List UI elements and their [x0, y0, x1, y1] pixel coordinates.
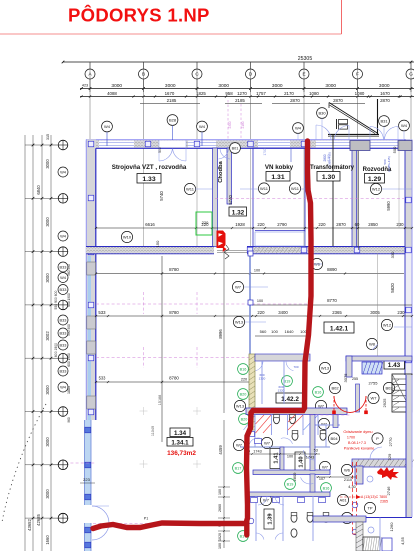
svg-text:2660: 2660 [218, 504, 222, 512]
window axis lines [106, 131, 108, 146]
thin dim line x377 [377, 253, 379, 356]
svg-text:600 1900: 600 1900 [67, 293, 71, 307]
svg-text:4,30: 4,30 [348, 485, 355, 489]
dotted boundary line bottom left [2, 404, 46, 522]
svg-text:1640: 1640 [285, 329, 295, 334]
svg-text:2746: 2746 [386, 486, 391, 496]
red section marker [217, 231, 226, 249]
svg-text:W4: W4 [60, 169, 67, 174]
magenta cross ticks at axis intersections [143, 292, 145, 314]
entrance ramp top right [329, 103, 378, 134]
left lower light-blue wall [85, 420, 92, 551]
svg-text:3000: 3000 [218, 83, 229, 89]
left bottom axis bubbles [58, 460, 68, 470]
svg-text:2180: 2180 [241, 121, 245, 128]
svg-text:W11: W11 [186, 186, 195, 191]
svg-text:600 1900: 600 1900 [67, 353, 71, 367]
svg-text:1.40: 1.40 [299, 456, 305, 467]
svg-text:2185: 2185 [167, 98, 177, 103]
svg-text:150: 150 [155, 240, 160, 247]
svg-text:220: 220 [202, 220, 209, 225]
svg-text:220: 220 [318, 222, 326, 227]
svg-text:1.31: 1.31 [271, 174, 284, 181]
svg-text:Chodba: Chodba [218, 160, 224, 182]
svg-text:B16: B16 [315, 390, 322, 394]
svg-text:136,73m2: 136,73m2 [167, 450, 196, 457]
svg-text:2365: 2365 [380, 500, 388, 504]
bottom right door arcs [370, 447, 382, 459]
svg-text:4459: 4459 [218, 445, 223, 455]
wall y494 [246, 492, 330, 497]
svg-text:4,55: 4,55 [400, 536, 405, 545]
svg-text:Odsávanie dymu: Odsávanie dymu [343, 429, 372, 434]
svg-text:B01: B01 [232, 146, 239, 150]
wall between 1.41 and 1.40 [280, 447, 284, 474]
svg-text:2110: 2110 [344, 478, 352, 482]
1.43 niche hatched [362, 362, 382, 374]
red removal cross cell 1 [256, 415, 272, 433]
svg-text:B31: B31 [380, 118, 388, 123]
green marked rectangle [196, 212, 212, 235]
svg-text:100: 100 [271, 329, 278, 334]
overall dimension 25305 [63, 61, 414, 63]
grid bubbles A-G [85, 69, 95, 79]
W12 upper bubble [370, 183, 381, 194]
svg-text:2870: 2870 [290, 98, 300, 103]
interior horizontal wall y250 right part [247, 247, 412, 254]
svg-text:Panikové kovanie: Panikové kovanie [344, 446, 375, 451]
svg-text:1.34.1: 1.34.1 [171, 440, 189, 447]
svg-text:533: 533 [99, 376, 107, 381]
green equipment bubbles [238, 364, 249, 375]
svg-text:3000: 3000 [45, 273, 50, 283]
svg-text:2870: 2870 [333, 98, 343, 103]
svg-text:W6: W6 [344, 467, 351, 472]
upper cells partitions 1.41 1.40 block [254, 415, 256, 447]
svg-text:B30: B30 [318, 110, 326, 115]
double door B31 arcs above wall [370, 127, 384, 141]
svg-text:3000: 3000 [45, 385, 50, 395]
svg-text:600 1900: 600 1900 [54, 343, 58, 357]
left wall piers [87, 262, 96, 275]
left wall glazing stripe [88, 256, 91, 420]
svg-text:330: 330 [390, 251, 395, 258]
svg-text:1.39: 1.39 [268, 513, 274, 525]
svg-text:B33: B33 [60, 368, 67, 373]
1.42.1 south wall [346, 356, 412, 361]
interior wall corridor opening [217, 250, 247, 252]
red cable route main [93, 141, 311, 529]
svg-text:2925: 2925 [382, 398, 387, 408]
svg-text:1270: 1270 [237, 91, 247, 96]
top wall door opening B28 [159, 141, 186, 148]
svg-text:8780: 8780 [169, 310, 179, 315]
svg-text:B33: B33 [60, 342, 67, 347]
svg-text:2870: 2870 [336, 222, 346, 227]
svg-text:PÔDORYS 1.NP: PÔDORYS 1.NP [68, 5, 210, 26]
interior wall nodes [247, 247, 253, 253]
svg-text:230: 230 [397, 310, 405, 315]
svg-text:2365: 2365 [332, 310, 342, 315]
svg-text:1320: 1320 [278, 389, 285, 393]
svg-text:3000: 3000 [379, 83, 390, 89]
svg-text:2870: 2870 [380, 98, 390, 103]
stair bottom right [392, 374, 412, 412]
svg-text:223: 223 [83, 477, 90, 482]
right lower exterior wall [406, 375, 412, 517]
svg-text:W4: W4 [104, 124, 111, 129]
svg-text:W7: W7 [264, 440, 271, 445]
wall column nodes top [86, 141, 92, 147]
svg-text:5740: 5740 [159, 191, 164, 201]
svg-text:255: 255 [352, 377, 358, 381]
svg-text:1.33: 1.33 [142, 176, 155, 183]
wall y472 [253, 470, 330, 475]
svg-text:3000: 3000 [45, 159, 50, 169]
room label 1.41 [270, 449, 280, 469]
svg-text:1.34: 1.34 [174, 430, 187, 437]
svg-text:W13: W13 [236, 403, 245, 408]
svg-text:220: 220 [257, 310, 265, 315]
svg-text:3000: 3000 [45, 217, 50, 227]
svg-text:W4: W4 [60, 275, 67, 280]
left window bubbles [58, 167, 68, 177]
svg-text:1.43: 1.43 [388, 362, 401, 369]
svg-text:1825: 1825 [196, 91, 206, 96]
blue circle fixtures [352, 529, 358, 535]
dark pier blocks flanking B31 [350, 141, 370, 151]
svg-text:(2385+415): (2385+415) [387, 156, 391, 171]
svg-text:B17: B17 [235, 466, 242, 470]
red smoke curtain dashed lines [352, 462, 354, 534]
svg-text:60: 60 [355, 222, 360, 227]
svg-text:B20: B20 [241, 417, 248, 421]
svg-text:1885: 1885 [67, 386, 71, 394]
left axis bubbles 1-8 [58, 140, 68, 150]
svg-text:1660: 1660 [45, 535, 50, 545]
svg-text:2770: 2770 [388, 437, 393, 447]
svg-text:1670: 1670 [380, 91, 390, 96]
transformer bay divider [332, 134, 334, 246]
svg-text:W11: W11 [260, 186, 269, 191]
svg-text:Transformátory: Transformátory [310, 165, 355, 171]
corridor door arcs [219, 149, 229, 159]
red route lower stub [244, 522, 249, 535]
svg-text:43652: 43652 [27, 519, 32, 531]
wc toilet row D [291, 529, 297, 537]
svg-text:B28: B28 [169, 117, 177, 122]
svg-text:2809: 2809 [292, 472, 297, 482]
hatched wall bottom right [356, 522, 363, 551]
svg-text:958: 958 [225, 91, 233, 96]
room label 1.42.2 [276, 393, 304, 403]
svg-text:8996: 8996 [218, 329, 223, 339]
svg-text:P: P [376, 436, 379, 441]
svg-text:B02: B02 [331, 385, 339, 390]
wall 1.42.2 hatched pier [249, 354, 255, 430]
blue circle fixtures right [367, 476, 373, 482]
svg-text:3000: 3000 [45, 437, 50, 447]
red removal cross cell 2 [288, 415, 303, 430]
bubble leader lines [195, 188, 212, 190]
svg-text:W4: W4 [199, 124, 206, 129]
bottom cells partitions [255, 496, 257, 541]
VN kobky room outline [253, 148, 305, 247]
wall pier x357 above smoke doors [356, 384, 360, 412]
svg-text:1700: 1700 [263, 148, 267, 155]
svg-text:B.08.1+7.3: B.08.1+7.3 [348, 441, 366, 445]
svg-text:B33: B33 [60, 317, 67, 322]
top exterior wall [86, 140, 412, 149]
wall stub below corridor [249, 254, 251, 355]
magenta dashed reference lines [96, 303, 310, 305]
svg-text:2850: 2850 [368, 222, 378, 227]
svg-text:100: 100 [257, 299, 263, 303]
svg-text:3005: 3005 [370, 310, 380, 315]
room label 1.42.1 [324, 322, 354, 333]
svg-text:B20: B20 [240, 392, 247, 396]
dimension row y334 560/100/1640 [255, 335, 310, 337]
svg-text:1.41: 1.41 [274, 452, 280, 464]
dimension row y273 [96, 273, 404, 275]
svg-text:5990: 5990 [386, 201, 391, 211]
svg-text:B16: B16 [240, 367, 247, 371]
red splash mark [377, 467, 399, 480]
svg-text:960 550: 960 550 [67, 264, 71, 276]
svg-text:100: 100 [218, 489, 222, 495]
svg-text:25305: 25305 [298, 56, 313, 62]
corridor east wall [227, 148, 232, 204]
svg-text:1700: 1700 [347, 436, 355, 440]
dimension row y382 left room [96, 381, 250, 383]
svg-text:6840: 6840 [36, 185, 41, 195]
svg-text:100: 100 [218, 543, 222, 549]
svg-text:1020: 1020 [218, 533, 222, 541]
svg-text:W13: W13 [321, 365, 330, 370]
svg-text:1670: 1670 [165, 91, 175, 96]
svg-text:1928: 1928 [235, 222, 245, 227]
room label 1.43 [384, 360, 405, 370]
svg-text:TP: TP [367, 505, 372, 510]
svg-text:5740: 5740 [228, 195, 233, 205]
svg-text:B33: B33 [60, 264, 67, 269]
svg-text:560: 560 [260, 329, 267, 334]
svg-text:W12: W12 [372, 186, 381, 191]
svg-text:1757: 1757 [256, 91, 266, 96]
svg-text:B19: B19 [284, 379, 291, 383]
svg-text:B33: B33 [60, 287, 67, 292]
svg-text:1.30: 1.30 [322, 174, 335, 181]
svg-text:W7: W7 [322, 464, 329, 469]
svg-text:W4: W4 [401, 123, 408, 128]
wall piece y517 right [313, 516, 366, 522]
svg-text:533: 533 [98, 310, 106, 315]
svg-text:550 900 600: 550 900 600 [54, 290, 58, 309]
room label 1.40 [295, 452, 305, 472]
door bubble B01 [230, 143, 241, 154]
svg-text:1743: 1743 [306, 456, 314, 460]
svg-text:W12: W12 [383, 322, 392, 327]
wall between 1.30 and 1.29 [352, 148, 357, 247]
svg-text:3000: 3000 [111, 83, 122, 89]
svg-text:1.29: 1.29 [368, 176, 381, 183]
svg-text:8890: 8890 [327, 267, 337, 272]
room label 1.39 [264, 509, 274, 529]
svg-text:3002: 3002 [45, 331, 50, 341]
svg-text:1260: 1260 [389, 522, 394, 532]
svg-text:8780: 8780 [169, 267, 179, 272]
ramp symbol B [336, 119, 338, 129]
svg-text:1.42.1: 1.42.1 [330, 326, 349, 333]
svg-text:A01: A01 [339, 497, 347, 502]
svg-text:1.32: 1.32 [232, 209, 245, 216]
svg-text:1080: 1080 [355, 91, 365, 96]
svg-text:100: 100 [287, 455, 293, 459]
svg-text:8770: 8770 [327, 298, 337, 303]
svg-text:53: 53 [314, 449, 318, 453]
VN kobky cell row [255, 232, 305, 246]
svg-text:1743: 1743 [253, 450, 261, 454]
sanitary side wall x310 [310, 415, 315, 471]
wc toilets row B [292, 432, 298, 440]
svg-text:W8: W8 [369, 341, 376, 346]
corridor west wall [213, 148, 218, 247]
left room grid crosses [140, 410, 148, 412]
svg-text:2185: 2185 [235, 98, 245, 103]
svg-text:42685: 42685 [36, 514, 41, 526]
svg-text:2300: 2300 [228, 121, 232, 128]
blue cross cells [244, 415, 256, 430]
wall y410 under 1.42.2 [246, 408, 347, 415]
svg-text:700: 700 [293, 365, 298, 369]
svg-text:P1: P1 [144, 517, 148, 521]
svg-text:550 900: 550 900 [67, 324, 71, 336]
room label 1.34 1.34.1 and area [170, 428, 190, 437]
svg-text:315: 315 [46, 134, 50, 140]
right exterior wall [405, 140, 412, 254]
svg-text:500: 500 [158, 147, 162, 153]
svg-text:3075: 3075 [343, 373, 348, 383]
wall pier below W6 [355, 466, 363, 484]
magenta dashed axis line y198 [215, 198, 404, 200]
svg-text:2170: 2170 [284, 91, 294, 96]
svg-text:230: 230 [396, 222, 404, 227]
svg-text:3400: 3400 [278, 310, 288, 315]
svg-text:W11: W11 [291, 186, 300, 191]
vertical dim line x162 in big room [161, 256, 163, 442]
bubbles in rooms [184, 183, 195, 194]
window bubbles top [102, 121, 113, 132]
left exterior wall [86, 140, 96, 421]
1.42.2 partitions [255, 354, 310, 361]
svg-text:A (13(13)C 7800: A (13(13)C 7800 [361, 495, 387, 499]
svg-text:107: 107 [319, 477, 325, 481]
svg-text:8780: 8780 [169, 376, 179, 381]
svg-text:6616: 6616 [145, 222, 155, 227]
bottom right room outline [366, 517, 412, 519]
left dimension chain lines [24, 135, 26, 551]
svg-text:3000: 3000 [272, 83, 283, 89]
svg-text:960: 960 [67, 417, 71, 423]
svg-text:W4: W4 [295, 125, 302, 130]
door arc bottom left entrance [92, 506, 109, 540]
svg-text:W10: W10 [123, 234, 132, 239]
svg-text:2755: 2755 [369, 381, 379, 386]
svg-text:220: 220 [241, 378, 247, 382]
svg-text:329: 329 [387, 453, 392, 460]
svg-text:W13: W13 [235, 319, 244, 324]
svg-text:1080: 1080 [309, 91, 319, 96]
door arcs sanitary [250, 438, 262, 444]
svg-text:Strojovňa VZT , rozvodňa: Strojovňa VZT , rozvodňa [112, 164, 187, 171]
dimension row y303 8770 [252, 304, 412, 306]
svg-text:500: 500 [392, 146, 397, 153]
wc toilets row C [291, 514, 297, 522]
svg-text:VN kobky: VN kobky [265, 164, 294, 171]
dimension row y226 6616/220/1928 etc [96, 227, 412, 229]
svg-text:15188: 15188 [158, 395, 162, 406]
top wall window openings [99, 141, 134, 148]
svg-text:B04: B04 [330, 436, 338, 441]
svg-text:W4: W4 [60, 233, 67, 238]
svg-text:B19: B19 [287, 482, 294, 486]
dimension row segment widths [80, 96, 414, 98]
hatched duct bottom [363, 537, 380, 551]
sanitary side wall pier x333 [333, 415, 338, 428]
svg-text:4088: 4088 [107, 91, 117, 96]
svg-text:1320: 1320 [259, 377, 266, 381]
svg-text:W4: W4 [60, 384, 67, 389]
svg-text:2100: 2100 [327, 154, 331, 161]
wall right y460 [352, 459, 412, 467]
svg-text:100: 100 [254, 269, 260, 273]
grid axis vertical lines [89, 62, 91, 139]
wc toilets row A [274, 415, 280, 423]
svg-text:2790: 2790 [277, 222, 287, 227]
svg-text:423: 423 [82, 84, 88, 88]
svg-text:W7: W7 [235, 284, 242, 289]
svg-text:220: 220 [257, 222, 265, 227]
washbasins [248, 432, 255, 437]
svg-text:5820: 5820 [390, 283, 395, 293]
red frame line [0, 33, 342, 35]
red smoke double door arcs [334, 396, 351, 413]
svg-text:W7: W7 [371, 395, 378, 400]
thin wall y447 [240, 446, 330, 448]
svg-text:B16: B16 [323, 486, 330, 490]
magenta dash under red route [93, 523, 247, 525]
dim extension line x377 [377, 99, 379, 134]
svg-text:B33: B33 [60, 330, 67, 335]
toilet cells below 1.42.2 [254, 415, 256, 436]
svg-text:W7: W7 [321, 421, 328, 426]
dimension row 3000s [80, 88, 414, 90]
svg-text:11049: 11049 [151, 426, 155, 436]
door B30 arcs above wall [316, 125, 331, 140]
svg-text:3000: 3000 [45, 489, 50, 499]
svg-text:3000: 3000 [165, 83, 176, 89]
interior horizontal wall y250 left part [86, 247, 214, 254]
svg-text:3000: 3000 [325, 83, 336, 89]
magenta dashed line right of sanitary [310, 414, 350, 416]
break line mark [224, 245, 229, 259]
dimension row y316 full width [96, 315, 412, 317]
